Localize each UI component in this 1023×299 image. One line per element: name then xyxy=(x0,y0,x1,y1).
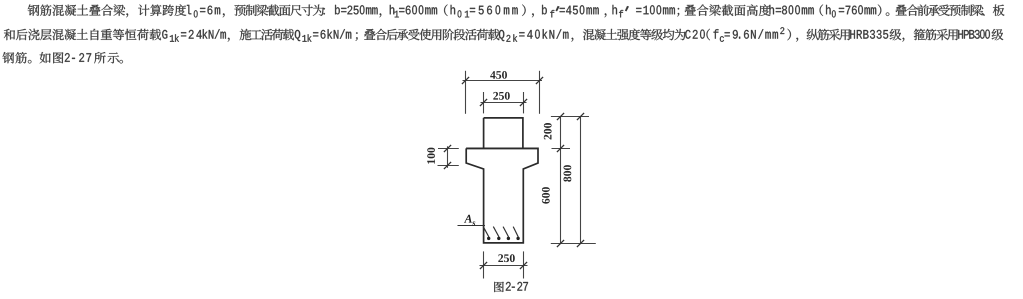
dimension line 200/600 (right inner) xyxy=(560,117,562,244)
tick marks on outer right dimension line xyxy=(577,113,584,247)
hatch strokes marking reinforcement zone xyxy=(483,227,518,237)
tick marks on inner right dimension line xyxy=(557,113,564,247)
dimension 100 (left flange depth): dimension line xyxy=(447,146,449,168)
dimension 250 (top): tick marks xyxy=(480,99,527,106)
dimension 250 (bottom): tick marks xyxy=(480,262,527,269)
right side extension lines (top, flange level, bottom) xyxy=(551,117,596,244)
dimension line 800 (right outer) xyxy=(580,117,582,244)
paragraph body text (3 lines) xyxy=(3,4,1005,63)
dimension value labels xyxy=(427,71,571,262)
dimension 100 (left flange depth): extension lines xyxy=(438,149,459,166)
dimension 250 (bottom): extension lines xyxy=(484,251,524,278)
dimension 450: dimension line xyxy=(463,80,543,82)
dimension 450: extension lines xyxy=(466,71,540,114)
beam cross-section outline (precast web + flange + cast topping block) xyxy=(466,118,538,243)
dimension 250 (top): dimension line xyxy=(481,102,527,104)
caption 图2-27 xyxy=(494,282,528,292)
dimension 100 (left flange depth): tick marks xyxy=(444,145,451,169)
dimension 450: tick marks xyxy=(462,77,543,84)
label As (tension reinforcement) xyxy=(464,215,475,226)
leader line for reinforcement label As xyxy=(458,225,486,227)
dimension 250 (top): extension lines xyxy=(484,92,524,113)
dimension 250 (bottom): dimension line xyxy=(480,265,528,267)
interface line between precast beam and cast-in-place topping xyxy=(466,147,538,149)
rebar dots (longitudinal bars As) xyxy=(487,237,520,240)
